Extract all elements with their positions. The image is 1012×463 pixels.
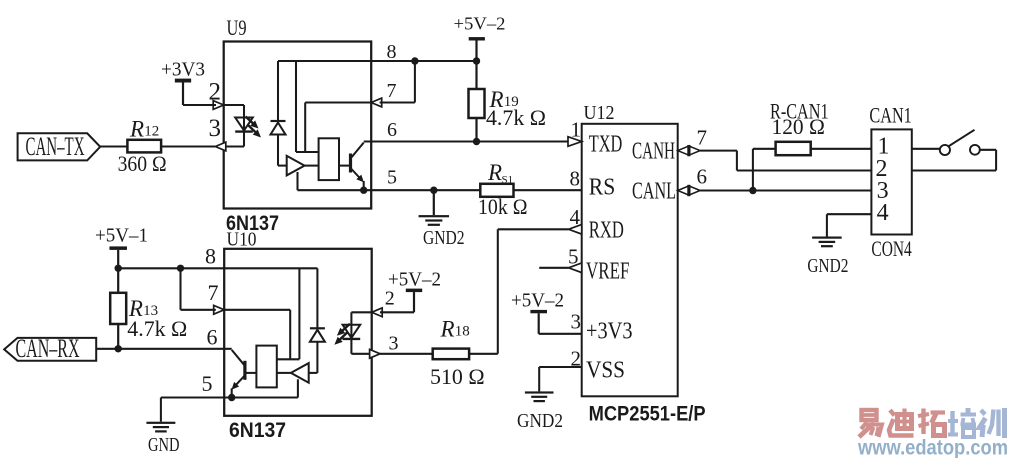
wire U9 LED branch [243, 105, 245, 147]
svg-text:GND2: GND2 [807, 255, 848, 277]
svg-text:8: 8 [387, 41, 397, 63]
svg-text:VREF: VREF [586, 259, 630, 285]
wire VSS [539, 366, 582, 368]
svg-text:5: 5 [387, 167, 397, 189]
U10 pin 7 arrow (mirrored) [214, 305, 225, 314]
svg-text:7: 7 [697, 126, 708, 150]
svg-text:6N137: 6N137 [229, 419, 286, 442]
node junction GND2 [430, 187, 437, 194]
svg-text:+3V3: +3V3 [586, 319, 633, 345]
svg-text:10k Ω: 10k Ω [478, 194, 528, 219]
svg-text:510 Ω: 510 Ω [430, 364, 485, 389]
node CAN-RX tag [4, 338, 96, 361]
wire U10 photodiode to amp (mirrored) [309, 372, 318, 374]
svg-text:120 Ω: 120 Ω [772, 114, 825, 139]
node U9 pin7/pin8 junction [411, 57, 418, 64]
transistor U10 output NPN (mirrored) [243, 361, 246, 380]
resistor R-CAN1 [776, 142, 811, 155]
svg-text:6: 6 [697, 165, 708, 189]
wire U10 pin 7 to pin 8 link (mirrored) [181, 309, 216, 311]
wire CANL [700, 189, 871, 191]
svg-text:TXD: TXD [589, 132, 623, 158]
svg-text:VSS: VSS [586, 358, 625, 384]
svg-text:CAN–TX: CAN–TX [26, 132, 85, 161]
LED U10 light arrows (mirrored) [341, 324, 350, 332]
gate U10 detector box (mirrored) [256, 346, 276, 388]
svg-text:U12: U12 [584, 102, 615, 124]
amplifier U9 [287, 156, 305, 176]
svg-text:3: 3 [389, 333, 399, 355]
svg-text:4.7k Ω: 4.7k Ω [127, 316, 187, 341]
svg-text:RXD: RXD [589, 218, 624, 244]
wire U9 pin 8 (Vcc) [278, 60, 477, 62]
wire U9 pin 7 to pin 8 link [380, 101, 415, 103]
photodiode U9 [277, 61, 279, 121]
svg-text:+5V–1: +5V–1 [95, 225, 148, 247]
resistor R13 [110, 293, 126, 324]
wire U10 amp ground return (mirrored) [297, 379, 299, 397]
wire U9 amp to gate [305, 165, 319, 167]
wire U9 photodiode to amp [278, 165, 287, 167]
wire CON4 pin4 [827, 213, 872, 215]
svg-text:GND2: GND2 [423, 227, 465, 249]
svg-text:+5V–2: +5V–2 [511, 290, 564, 312]
wire CAN-TX to R12 [100, 145, 127, 147]
svg-text:U9: U9 [227, 15, 247, 40]
wire R-CAN1 left leg [752, 149, 754, 191]
svg-text:www.edatop.com: www.edatop.com [857, 437, 1008, 459]
ground GND2 (VSS) [525, 391, 554, 393]
transistor U9 output NPN [349, 154, 352, 173]
svg-text:CANH: CANH [632, 139, 675, 165]
wire U10 pin 5 internal (mirrored) [224, 396, 298, 398]
wire U9 pin 5 internal [298, 189, 372, 191]
LED U9 light arrows [246, 117, 255, 125]
ground GND [146, 422, 175, 424]
svg-text:8: 8 [570, 167, 581, 191]
optocoupler U9 body box [224, 42, 372, 209]
wire U10 gate to transistor base (mirrored) [245, 372, 257, 374]
U9 pin 3 wire [224, 145, 244, 147]
node junction R13/CAN-RX [115, 345, 122, 352]
node junction R19/TXD [473, 138, 480, 145]
svg-text:4.7k Ω: 4.7k Ω [486, 105, 546, 130]
svg-text:7: 7 [387, 80, 397, 102]
node CAN-TX tag [18, 133, 101, 160]
svg-text:2: 2 [385, 288, 395, 310]
wire U10 pin 8 (Vcc) (mirrored) [118, 267, 317, 269]
U9 pin 2 wire [224, 104, 244, 106]
wire U9 pin 6 (collector out) [364, 140, 477, 142]
wire CAN-RX [96, 348, 120, 350]
resistor R19 [469, 89, 485, 118]
LED U10 input diode (mirrored) [343, 325, 361, 338]
wire U10 pin 6 (collector out) (mirrored) [119, 348, 232, 350]
svg-text:3: 3 [571, 310, 582, 334]
svg-text:8: 8 [205, 244, 216, 269]
svg-text:S1: S1 [502, 174, 514, 186]
U10 pin 2 wire (mirrored) [351, 311, 371, 313]
svg-text:6: 6 [207, 325, 218, 350]
svg-text:GND2: GND2 [517, 410, 563, 432]
svg-text:18: 18 [455, 324, 470, 340]
svg-text:CON4: CON4 [871, 236, 911, 261]
node U10 emitter junction (mirrored) [228, 394, 235, 401]
wire U10 LED branch (mirrored) [350, 312, 352, 354]
svg-text:MCP2551-E/P: MCP2551-E/P [589, 403, 706, 426]
svg-text:CAN–RX: CAN–RX [16, 334, 80, 363]
wire U10 vcc internal (mirrored) [298, 268, 300, 359]
svg-text:12: 12 [144, 124, 159, 140]
port CANH bidirectional [678, 146, 690, 155]
wire RS [371, 189, 582, 191]
resistor R12 [127, 145, 215, 147]
wire U9 gate to transistor base [339, 165, 351, 167]
port CANL bidirectional [678, 186, 690, 195]
svg-text:CAN1: CAN1 [869, 103, 911, 128]
svg-text:U10: U10 [227, 229, 257, 251]
wire VREF stub [569, 263, 582, 273]
wire U9 pin 7 internal [305, 101, 371, 103]
U10 pin 3 wire (mirrored) [351, 353, 371, 355]
ground GND2 (CON4) [812, 237, 842, 239]
amplifier U10 (mirrored) [291, 363, 309, 383]
svg-text:GND: GND [148, 434, 180, 456]
node junction pin8/+5V-2 [473, 57, 480, 64]
svg-text:+5V–2: +5V–2 [454, 14, 506, 34]
wire U10 amp to gate (mirrored) [277, 372, 291, 374]
U9 pin 2 arrow [213, 101, 224, 110]
watermark yiditop [862, 410, 877, 420]
svg-text:7: 7 [208, 280, 219, 305]
wire U10 pin5 to GND [161, 396, 224, 398]
U10 pin 2 arrow (mirrored) [372, 308, 383, 317]
node U9 emitter junction [360, 187, 367, 194]
U10 pin 3 arrow (mirrored) [370, 349, 381, 358]
optocoupler U10 body box (mirrored) [224, 249, 372, 416]
U9 pin 3 arrow [215, 142, 226, 151]
svg-text:3: 3 [209, 115, 222, 142]
U9 pin 7 arrow [371, 98, 382, 107]
resistor R18 [433, 353, 498, 355]
switch S1 [912, 148, 940, 150]
svg-text:360 Ω: 360 Ω [118, 151, 167, 176]
svg-text:+5V–2: +5V–2 [388, 269, 441, 291]
node U10 pin7/pin8 junction (mirrored) [177, 265, 184, 272]
svg-text:5: 5 [202, 371, 213, 396]
wire RXD [569, 225, 582, 235]
svg-text:R: R [440, 317, 455, 342]
svg-text:+3V3: +3V3 [161, 60, 205, 81]
gate U9 detector box [319, 138, 339, 180]
photodiode U10 (mirrored) [316, 268, 318, 328]
svg-text:2: 2 [209, 79, 222, 106]
node junction pin8/+5V-1 [115, 265, 122, 272]
node junction CANL/R-CAN1 [749, 187, 756, 194]
ground GND2 (U9) [433, 190, 435, 215]
svg-text:CANL: CANL [632, 179, 676, 205]
svg-text:RS: RS [589, 175, 616, 201]
wire U10 pin 7 internal (mirrored) [224, 309, 290, 311]
wire U9 vcc internal [295, 61, 297, 152]
wire CANH [700, 150, 737, 152]
op-amp U12 MCP2551 body [582, 124, 678, 397]
wire U10 pin3 to R18 [380, 353, 433, 355]
wire U9 amp ground return [296, 172, 298, 190]
svg-text:R: R [129, 117, 144, 142]
connector CAN1 CON4 body [871, 129, 911, 234]
LED U9 input diode [235, 118, 253, 131]
svg-text:1: 1 [571, 118, 582, 142]
wire TXD [477, 140, 582, 142]
svg-text:6: 6 [387, 119, 397, 141]
svg-text:R: R [487, 160, 502, 185]
svg-text:4: 4 [877, 200, 889, 226]
resistor R51 [480, 184, 513, 197]
